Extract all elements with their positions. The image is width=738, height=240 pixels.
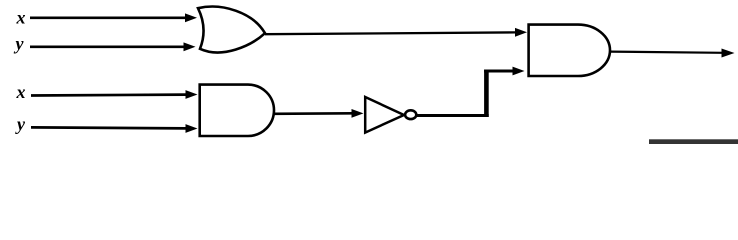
inverter NOT1 triangle bbox=[365, 97, 404, 133]
wire x to OR1 bbox=[30, 16, 186, 19]
arrowhead y into OR1 bbox=[184, 42, 196, 51]
wire NOT1 output to riser bbox=[417, 114, 489, 117]
svg-text:x: x bbox=[16, 8, 26, 28]
arrowhead x into AND1 bbox=[186, 90, 198, 99]
wire riser vertical bbox=[484, 70, 489, 117]
wire riser top to AND2 bbox=[484, 70, 513, 73]
wire y to AND1 bbox=[31, 126, 186, 130]
svg-text:y: y bbox=[15, 114, 26, 134]
svg-text:x: x bbox=[16, 82, 26, 102]
inverter NOT1 bubble bbox=[405, 110, 416, 119]
arrowhead riser into AND2 bbox=[513, 67, 525, 76]
and-gate AND1 bbox=[200, 85, 274, 136]
wire x to AND1 bbox=[31, 93, 186, 97]
arrowhead OR1 into AND2 bbox=[515, 28, 527, 37]
dark bar bottom right bbox=[649, 139, 738, 144]
output arrowhead bbox=[722, 49, 735, 58]
wire y to OR1 bbox=[30, 45, 184, 48]
and-gate AND2 bbox=[529, 25, 610, 76]
svg-text:y: y bbox=[14, 34, 25, 54]
output wire from AND2 bbox=[610, 52, 723, 53]
arrowhead AND1 into NOT1 bbox=[352, 109, 364, 118]
arrowhead y into AND1 bbox=[186, 124, 198, 133]
or-gate OR1 bbox=[198, 7, 265, 53]
wire OR1 output to AND2 bbox=[265, 32, 516, 34]
wire AND1 output to NOT1 bbox=[274, 112, 352, 115]
arrowhead x into OR1 bbox=[185, 13, 197, 22]
